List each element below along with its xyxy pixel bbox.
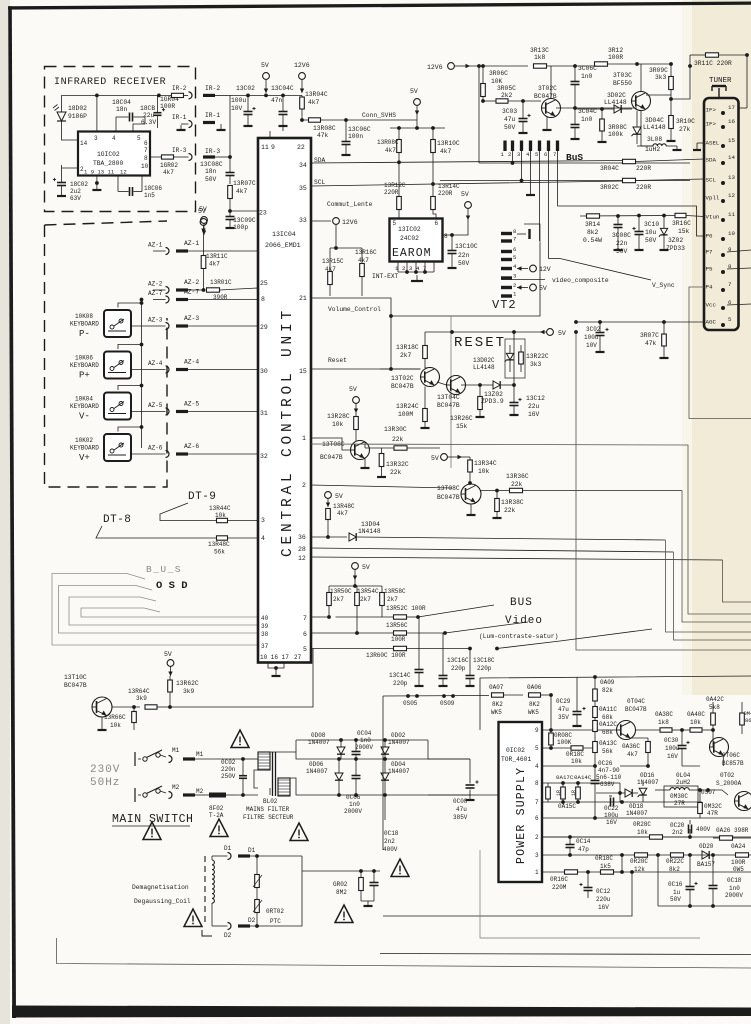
svg-text:1n0: 1n0 [349,801,360,808]
svg-text:4k7: 4k7 [385,147,396,154]
wire D2 right [250,856,302,926]
wire pin12 hook [723,560,751,602]
svg-text:13C02: 13C02 [236,85,255,92]
svg-text:13D02C: 13D02C [473,357,495,364]
wire bottom long rail y954 [380,954,751,955]
svg-text:0A40C: 0A40C [687,711,705,718]
svg-text:13C14C: 13C14C [389,672,411,679]
VT2 pin frame [517,233,526,235]
rail top bridge [296,739,428,741]
svg-text:6: 6 [535,815,539,822]
wire tuner Vcc right [727,304,751,305]
svg-text:13R22C: 13R22C [526,353,549,360]
wire PS pin 8 [542,782,620,784]
svg-text:50V: 50V [504,124,516,131]
wire PS pin 1 [542,871,751,873]
svg-text:CENTRAL CONTROL UNIT: CENTRAL CONTROL UNIT [280,307,296,557]
svg-text:AZ-2: AZ-2 [184,279,199,286]
wire pin15 reset [311,368,420,370]
svg-text:3: 3 [535,852,539,859]
svg-text:2k2: 2k2 [501,92,513,99]
svg-text:0C16: 0C16 [668,881,683,888]
wire pin21 volume [311,244,540,317]
svg-text:IR-2: IR-2 [205,85,220,92]
svg-text:10V: 10V [231,105,243,112]
svg-text:3Z02: 3Z02 [668,237,683,244]
svg-text:100R: 100R [731,859,746,866]
wire pin36 line [311,536,347,538]
wire 3T03C collector to 3R09C [646,94,671,96]
svg-text:EAROM: EAROM [392,247,432,260]
svg-text:0A09: 0A09 [600,679,615,686]
degauss dashed core [204,856,206,926]
capacitor 0C06 1n0 2000V symbol [352,775,361,777]
svg-text:5V: 5V [349,386,357,393]
svg-text:0RT02: 0RT02 [266,908,284,915]
wire 12V6 branch down [300,118,304,122]
svg-text:5: 5 [728,316,732,323]
svg-text:0A11C: 0A11C [599,706,617,713]
svg-text:8k2: 8k2 [669,866,680,873]
svg-text:5: 5 [535,745,539,752]
ground bus pin4 [530,151,532,190]
svg-text:3R16C: 3R16C [672,220,691,227]
svg-text:0IC02: 0IC02 [506,747,525,754]
wire base left 13T02C [380,368,421,370]
5V node left below [201,217,208,224]
svg-text:12: 12 [728,192,735,199]
svg-text:250V: 250V [221,773,236,780]
svg-text:DT-9: DT-9 [188,491,216,503]
svg-text:Vcc: Vcc [706,302,717,309]
svg-text:6.3V: 6.3V [141,119,156,126]
wire 0A06 down to PS pin9 [550,695,552,730]
svg-text:0S05: 0S05 [403,700,418,707]
svg-text:12V6: 12V6 [427,64,443,71]
svg-text:100R: 100R [160,103,175,110]
wire bus video diagonal 2 [445,622,528,633]
svg-text:18CB: 18CB [140,105,155,112]
12V6 supply node top [299,73,306,80]
rail right bridge [427,740,429,759]
svg-text:1k8: 1k8 [658,719,669,726]
wire vt2 pin5 to bus5 [539,234,541,241]
5V node reset rail [547,329,554,336]
svg-text:5V: 5V [362,564,370,571]
outer frame top border [8,2,751,10]
svg-text:0A15C: 0A15C [558,803,576,810]
degaussing coil [212,855,220,857]
svg-text:BF550: BF550 [613,80,632,87]
svg-text:LL4148: LL4148 [604,99,627,106]
svg-text:0A12C: 0A12C [599,721,617,728]
svg-text:9186P: 9186P [68,113,87,120]
svg-text:BC047B: BC047B [437,402,460,409]
svg-text:8: 8 [513,228,516,235]
svg-text:TUNER: TUNER [709,77,732,85]
svg-text:D2: D2 [224,932,232,939]
svg-text:0A07: 0A07 [489,684,504,691]
wire reset rail branch down x576 [576,332,751,650]
wire bottom right rail y906 [658,905,751,907]
svg-text:ZPD3.9: ZPD3.9 [481,398,504,405]
svg-text:2n2: 2n2 [672,829,683,836]
wire 0C06 line down [384,795,386,820]
svg-text:13R14C: 13R14C [438,183,460,190]
5V node 13R28C [353,397,360,404]
svg-text:18D02: 18D02 [68,105,87,112]
wire 13T08C emitter [364,458,366,468]
svg-text:18n: 18n [205,168,217,175]
transformer BL02 mains filter [258,752,270,770]
svg-text:TOR_4601: TOR_4601 [501,756,531,763]
wire reset 5V rail [425,331,540,333]
wire 12V6 rail [470,65,528,67]
5V node VT2 [517,287,528,289]
svg-text:AZ-1: AZ-1 [148,242,163,249]
svg-text:D1: D1 [224,845,232,852]
svg-text:3D04C: 3D04C [645,117,664,124]
svg-text:5V: 5V [431,455,439,462]
svg-text:10: 10 [728,230,735,237]
wire pin33 to 12V6 [311,220,331,222]
svg-text:0M32C: 0M32C [704,803,722,810]
svg-text:22k: 22k [390,469,402,476]
wire pin2 rail detail [542,836,620,838]
svg-text:3: 3 [261,517,265,524]
svg-text:56k: 56k [214,549,225,556]
svg-text:5V: 5V [461,191,469,198]
svg-text:2000V: 2000V [355,744,373,751]
svg-text:11: 11 [728,211,735,218]
svg-text:3R12: 3R12 [608,47,623,54]
svg-text:2k7: 2k7 [333,596,344,603]
svg-text:5V: 5V [410,88,418,95]
svg-text:5: 5 [137,135,141,142]
5V 13R48C branch [325,492,332,499]
svg-text:7: 7 [553,151,556,158]
wire PS pin 7 [542,801,702,803]
svg-text:4k7: 4k7 [337,510,348,517]
svg-text:13R54C: 13R54C [357,588,379,595]
wire 13T08C collector right [364,442,366,448]
svg-text:220R: 220R [384,189,399,196]
wire emitter 3T03C down [640,111,642,147]
svg-text:0C14: 0C14 [576,838,591,845]
svg-text:220u: 220u [596,896,611,903]
svg-text:0D06: 0D06 [309,761,324,768]
svg-text:31: 31 [260,410,268,417]
svg-text:12V6: 12V6 [342,219,358,226]
svg-text:47k: 47k [317,132,329,139]
12V6 supply node right [448,63,455,70]
svg-text:IR-3: IR-3 [205,148,220,155]
wire bus video diagonal 1 [418,605,494,617]
svg-text:27: 27 [294,654,302,661]
wire AZ-5 to CCU pin 31 [188,411,258,413]
svg-text:1k5: 1k5 [600,863,611,870]
svg-text:25: 25 [260,280,268,287]
svg-text:13R12C: 13R12C [384,182,406,189]
wire 0S05 line [382,696,384,850]
svg-text:SDA: SDA [314,157,326,164]
resistor third small [546,787,551,799]
keyboard key 10K08 P- [104,310,131,337]
svg-text:18C04: 18C04 [112,99,131,106]
svg-text:14: 14 [728,154,735,161]
svg-text:5V: 5V [261,62,269,69]
svg-text:1n5: 1n5 [144,192,155,199]
svg-text:Vtun: Vtun [706,214,720,221]
svg-text:RESET: RESET [454,335,506,351]
keyboard key 10K02 V+ [104,434,131,461]
svg-text:AZ-7: AZ-7 [184,289,199,296]
svg-text:0A06: 0A06 [527,684,542,691]
wire Vtun row [580,215,675,218]
svg-text:B_U_S: B_U_S [146,564,182,575]
key 10K08 bus tap [118,303,142,308]
svg-text:13R56C: 13R56C [386,622,408,629]
svg-text:220p: 220p [393,680,408,687]
svg-text:12V6: 12V6 [294,62,310,69]
svg-text:video_composite: video_composite [552,277,609,284]
svg-text:16V: 16V [528,411,540,418]
svg-text:100R: 100R [391,636,406,643]
svg-text:10u: 10u [645,229,657,236]
svg-text:IR-3: IR-3 [172,147,187,154]
svg-text:6: 6 [544,151,547,158]
svg-text:0R22C: 0R22C [666,858,684,865]
warning triangle mains filter [290,823,308,841]
wire y916 rail [383,872,632,916]
svg-text:0R08C: 0R08C [554,732,572,739]
svg-text:AZ-7: AZ-7 [148,290,163,297]
svg-text:0D02: 0D02 [391,732,406,739]
svg-text:BC047B: BC047B [391,383,414,390]
wire collector node [470,483,472,486]
svg-text:0T04C: 0T04C [627,698,645,705]
svg-text:4: 4 [112,135,116,142]
wire 0T06C emitter [722,755,724,766]
svg-text:3R10C: 3R10C [676,118,695,125]
svg-text:2k7: 2k7 [360,596,371,603]
svg-text:LL4148: LL4148 [473,364,495,371]
svg-text:Conn_SVHS: Conn_SVHS [362,112,396,119]
svg-text:13R44C: 13R44C [209,505,231,512]
svg-text:230V: 230V [90,764,120,776]
outer frame bottom border [12,1006,751,1018]
svg-text:MAINS FILTER: MAINS FILTER [246,806,290,813]
svg-text:10K06: 10K06 [75,355,93,362]
svg-text:22k: 22k [392,436,404,443]
svg-text:220R: 220R [636,184,651,191]
svg-text:0R20C: 0R20C [630,858,648,865]
svg-text:13R58C: 13R58C [384,588,406,595]
svg-text:220R: 220R [438,190,453,197]
svg-text:14: 14 [80,140,88,147]
svg-text:3R09C: 3R09C [649,67,668,74]
net D2 [238,924,250,927]
keyboard common bus [141,300,143,449]
svg-text:15k: 15k [678,228,690,235]
svg-text:0R18C: 0R18C [566,751,584,758]
inner sheet border bottom-left corner [57,938,751,968]
ground IC pin9 [96,176,98,191]
svg-text:ZPD33: ZPD33 [666,245,685,252]
wire AZ-3 to CCU pin 29 [188,325,258,327]
svg-text:27R: 27R [674,800,685,807]
svg-text:2k7: 2k7 [400,352,412,359]
svg-text:0C29: 0C29 [556,698,571,705]
svg-text:13R48C: 13R48C [208,541,230,548]
wire tuner P5 right [727,268,751,269]
svg-text:3R08C: 3R08C [608,124,627,131]
wire EAROM pin8 [443,234,453,236]
wire AZ-6 to CCU pin 32 [188,453,258,455]
svg-text:10k: 10k [571,758,582,765]
svg-text:13R24C: 13R24C [396,403,419,410]
bus pin7 wire down [557,151,559,206]
svg-text:10K: 10K [491,78,503,85]
svg-text:1: 1 [535,869,539,876]
warning triangle 0C18 [391,859,409,877]
svg-text:23: 23 [259,210,267,217]
svg-text:V_Sync: V_Sync [652,282,675,289]
svg-text:13R30C: 13R30C [384,426,407,433]
svg-text:13R64C: 13R64C [128,688,150,695]
svg-text:2066_EMD1: 2066_EMD1 [265,242,301,249]
svg-text:1u: 1u [673,889,681,896]
svg-text:0A13C: 0A13C [599,740,617,747]
keyboard key 10K04 V- [104,393,131,420]
svg-text:0D18: 0D18 [629,803,644,810]
svg-text:AZ-1: AZ-1 [184,240,199,247]
svg-text:10V: 10V [586,342,597,349]
svg-text:50V: 50V [205,176,217,183]
wire pin28 line [311,548,674,552]
svg-text:220R: 220R [636,165,651,172]
5V node EAROM [465,202,472,209]
wire Conn_SVHS [346,119,417,121]
svg-text:V-: V- [79,412,90,422]
warning triangle GR02 [335,905,353,923]
svg-text:3C08C: 3C08C [612,232,631,239]
svg-text:8k2: 8k2 [587,229,599,236]
svg-text:KEYBOARD: KEYBOARD [70,321,99,328]
wire IR-2 rail to CCU top [228,94,302,96]
svg-text:100u: 100u [604,812,619,819]
svg-text:3D02C: 3D02C [607,92,626,99]
svg-text:13R04C: 13R04C [305,91,328,98]
svg-text:5: 5 [513,254,516,261]
reset box thin rect [505,339,525,378]
warning triangle below M1 [143,822,161,840]
svg-text:1R: 1R [571,790,577,796]
svg-text:15: 15 [728,137,735,144]
svg-text:0T06C: 0T06C [722,752,740,759]
wire pin7 bus out [311,616,329,618]
wire pin28 hook [674,552,751,640]
svg-text:12k: 12k [634,866,645,873]
svg-text:P4: P4 [706,284,713,291]
svg-text:Vpll: Vpll [706,195,720,202]
svg-text:0S09: 0S09 [440,700,455,707]
svg-text:P-: P- [79,329,90,339]
resistor right edge 0M44 [740,713,745,725]
svg-text:13C12: 13C12 [526,395,545,402]
wire y766 rail [620,765,648,767]
svg-text:VT2: VT2 [492,298,517,312]
wire GR02 rail [302,870,380,872]
svg-text:13C10C: 13C10C [455,243,478,250]
wire bus video diagonal 3 [495,647,499,651]
svg-text:P6: P6 [706,233,713,240]
svg-text:D2: D2 [248,917,256,924]
svg-text:0A42C: 0A42C [706,696,724,703]
wire PS pin 4 [542,765,595,767]
wire AZ-4 to CCU pin 30 [188,369,258,371]
svg-text:1 9 13 11: 1 9 13 11 [84,169,115,176]
svg-text:AZ-3: AZ-3 [184,315,199,322]
svg-text:4n7-90: 4n7-90 [598,767,620,774]
svg-text:4k7: 4k7 [627,751,638,758]
svg-text:12V: 12V [539,266,551,273]
svg-text:13R26C: 13R26C [450,415,473,422]
warning triangle degauss [184,909,202,927]
wire ps bottom frame [480,850,700,938]
svg-text:AZ-6: AZ-6 [148,445,163,452]
svg-text:T-2A: T-2A [209,812,224,819]
svg-text:22k: 22k [511,481,523,488]
svg-text:S_2000A: S_2000A [716,780,742,787]
ground 13T10C [101,717,103,729]
svg-text:385V: 385V [453,814,468,821]
svg-text:9: 9 [535,727,539,734]
svg-text:37: 37 [261,643,269,650]
svg-text:7: 7 [728,281,732,288]
IC 13IC02 24C02 EAROM [390,219,443,262]
svg-text:13C18C: 13C18C [473,657,495,664]
svg-text:0C18: 0C18 [384,830,399,837]
svg-text:22u: 22u [528,403,540,410]
svg-text:2: 2 [513,282,516,289]
connector D2 [211,903,213,926]
svg-text:29: 29 [260,324,268,331]
svg-text:3C03: 3C03 [502,108,517,115]
wire IR-3 to CCU [215,156,230,158]
svg-text:1GR02: 1GR02 [160,162,178,169]
svg-text:3R05C: 3R05C [497,85,516,92]
svg-text:0M4: 0M4 [744,710,751,717]
svg-text:WK5: WK5 [528,709,539,716]
svg-text:3C10: 3C10 [644,221,659,228]
svg-text:13R15C: 13R15C [322,258,344,265]
svg-text:13R38C: 13R38C [501,499,524,506]
bus pin5 wire down [539,151,541,234]
svg-text:30: 30 [260,368,268,375]
svg-text:IR-2: IR-2 [172,85,187,92]
svg-text:2: 2 [508,151,511,158]
svg-text:TBA_2800: TBA_2800 [93,160,123,167]
5V node 13R50C rail [352,563,359,570]
svg-text:638V: 638V [600,781,615,788]
wire pin6 bus out [311,632,394,634]
wire 13T04C emitter row [461,384,493,386]
svg-text:2: 2 [535,834,539,841]
svg-text:56k: 56k [602,748,613,755]
svg-text:3k3: 3k3 [530,361,542,368]
svg-text:16V: 16V [667,753,678,760]
